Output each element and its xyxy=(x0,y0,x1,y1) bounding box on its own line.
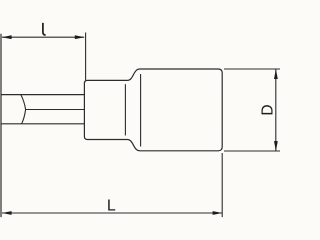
dimension D: top extension line xyxy=(224,68,280,70)
svg-text:L: L xyxy=(107,197,116,214)
socket body outline (collar + body silhouette) xyxy=(84,69,222,151)
dimension L: right extension line xyxy=(221,153,223,217)
dimension D: bottom extension line xyxy=(224,150,280,152)
bit tip chamfer lower xyxy=(22,110,26,124)
dimension L: left arrow xyxy=(2,211,12,215)
wire inner edge line at body fillet end xyxy=(140,74,142,147)
wire shaft middle hex edge line xyxy=(26,109,85,111)
dimension D: bottom arrow xyxy=(274,141,278,151)
dimension D: top arrow xyxy=(274,69,278,79)
extension line left (bit tip edge + extension for l and L) xyxy=(0,34,2,217)
dimension l: dimension line xyxy=(2,36,84,38)
dimension L: right arrow xyxy=(213,211,223,215)
dimension l: right extension line xyxy=(85,33,87,81)
wire shaft top line xyxy=(1,94,84,96)
dimension l: label l xyxy=(43,23,46,35)
wire shaft bottom line xyxy=(1,123,84,125)
dimension L: dimension line xyxy=(2,212,222,214)
bit tip chamfer upper xyxy=(21,95,26,110)
dimension l: right arrow xyxy=(75,35,85,39)
dimension D: dimension line xyxy=(275,69,277,151)
dimension l: left arrow xyxy=(2,35,12,39)
svg-text:D: D xyxy=(260,104,277,115)
wire inner edge line at collar fillet start xyxy=(124,84,126,135)
